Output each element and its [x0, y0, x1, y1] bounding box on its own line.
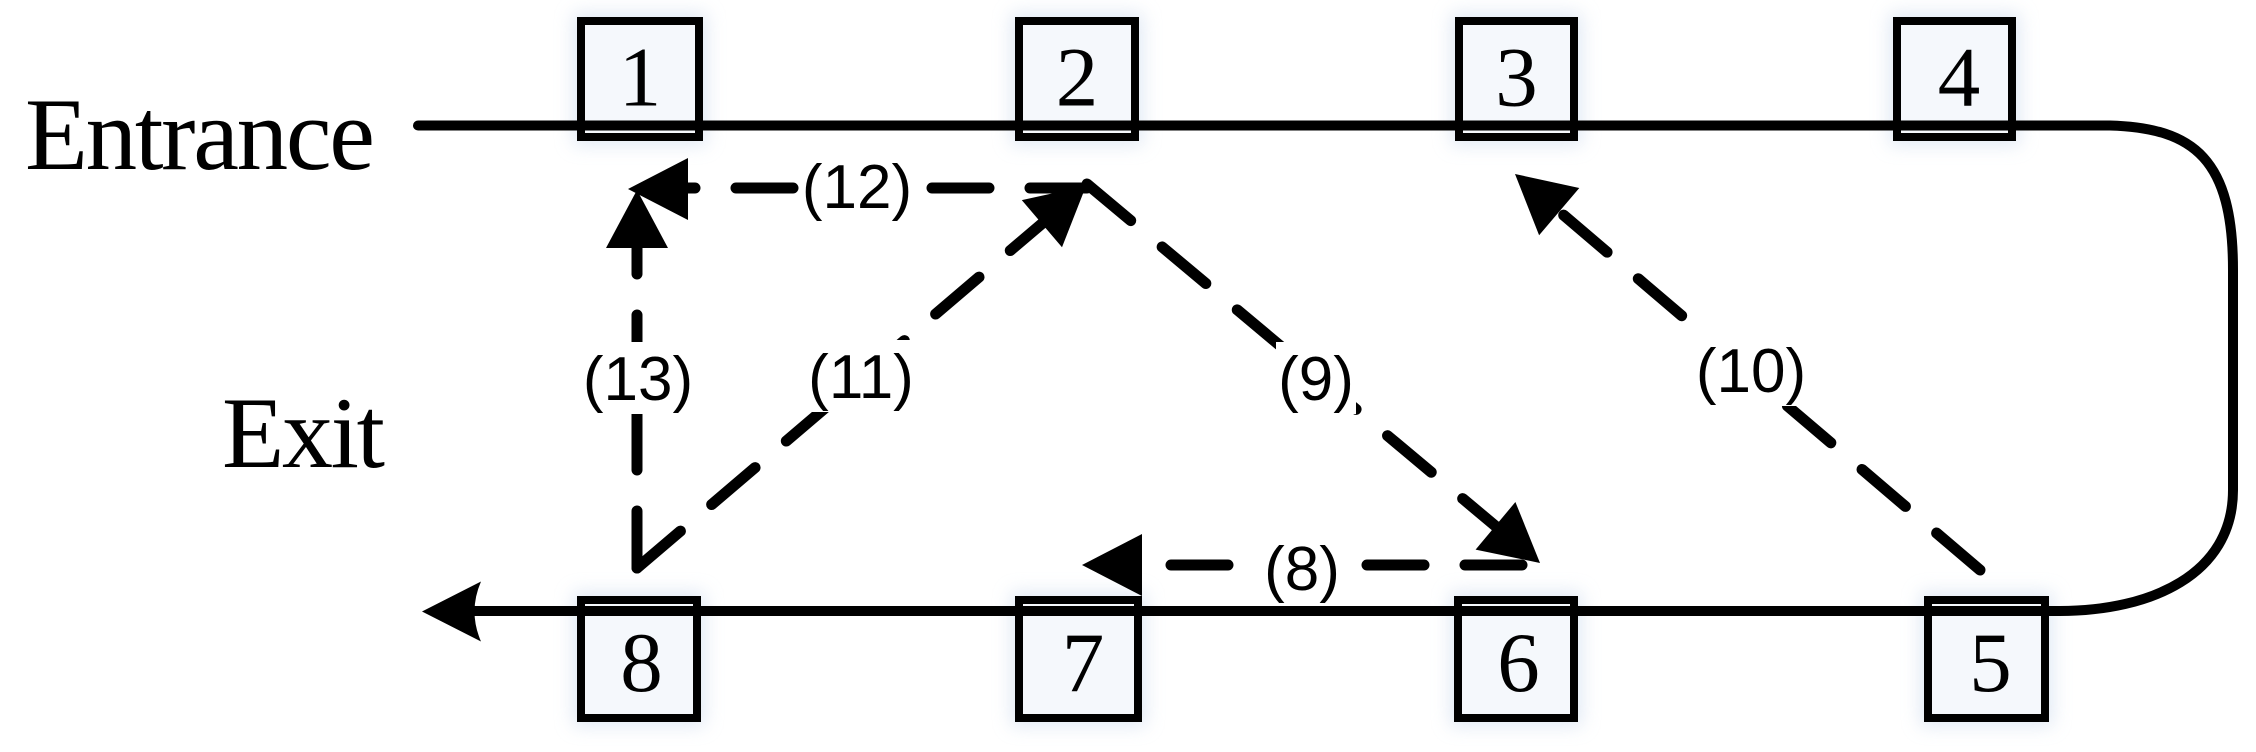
station box 7 [1019, 600, 1138, 718]
dashed route 9: from vertex under box 2 down-right to box 6 [1087, 184, 1536, 560]
station box 2 [1019, 21, 1135, 137]
svg-text:(12): (12) [802, 153, 912, 222]
station box 8 [581, 600, 697, 718]
dashed route 13: from box 8 up to box 1 [632, 245, 643, 568]
station box 6 [1458, 600, 1574, 718]
main loop line: entrance top, right U-turn, exit bottom [418, 126, 2233, 612]
route label (8) [1262, 532, 1342, 598]
route label (11) [807, 340, 915, 412]
dashed route 10: from box 5 up-left to box 3 [1560, 212, 1980, 570]
dashed route 8: from box 6 left to box 7 [1140, 560, 1522, 571]
svg-text:5: 5 [1969, 616, 2012, 710]
station box 1 [581, 21, 699, 137]
svg-text:2: 2 [1056, 31, 1099, 125]
route label (13) [584, 342, 692, 414]
svg-text:4: 4 [1938, 31, 1981, 125]
svg-text:1: 1 [619, 31, 662, 125]
svg-text:(11): (11) [808, 343, 914, 412]
dashed route 12: from vertex under box 2 left to box 1 [688, 183, 1087, 194]
arrowhead route 10 [1515, 174, 1579, 235]
route label (12) [803, 150, 911, 222]
exit arrowhead on bottom line [422, 582, 481, 642]
arrowhead route 11 [1022, 186, 1086, 247]
route label (9) [1276, 342, 1356, 414]
station box 3 [1459, 21, 1574, 137]
station box 5 [1928, 600, 2045, 718]
station box 4 [1897, 21, 2012, 137]
svg-text:(13): (13) [583, 345, 693, 414]
svg-text:3: 3 [1495, 31, 1538, 125]
route label (10) [1697, 334, 1805, 406]
dashed route 11: from box 8 up-right to vertex under box 2 [637, 187, 1085, 568]
svg-text:(10): (10) [1696, 337, 1806, 406]
svg-text:(8): (8) [1264, 535, 1340, 604]
arrowhead route 8 [1082, 534, 1142, 596]
svg-text:Entrance: Entrance [25, 78, 375, 192]
box glows [573, 13, 707, 145]
svg-text:8: 8 [620, 616, 663, 710]
svg-text:(9): (9) [1278, 345, 1354, 414]
arrowhead route 12 [628, 158, 688, 220]
svg-text:6: 6 [1497, 616, 1540, 710]
svg-text:7: 7 [1062, 616, 1105, 710]
arrowhead route 9 [1476, 502, 1540, 563]
svg-text:Exit: Exit [222, 377, 385, 490]
arrowhead route 13 [606, 190, 668, 248]
